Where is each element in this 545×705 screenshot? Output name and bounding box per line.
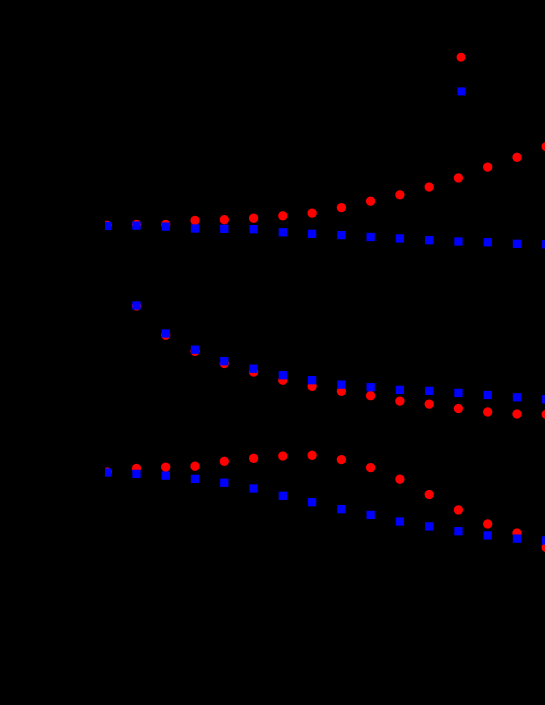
series band1-red (rising, top band): red circle markers: [103, 142, 545, 230]
series band1-blue (flat, top band): blue square markers: [103, 221, 545, 248]
series band2-blue (declining, middle band): blue square markers: [132, 301, 545, 403]
series band3-red (peak then falling, bottom band): red circle markers: [103, 451, 545, 552]
axis clip: black mask left of plot area x<105: [0, 0, 105, 705]
series band2-red (declining, middle band): red circle markers: [132, 301, 545, 419]
legend marker: blue square: [457, 87, 465, 95]
series band3-blue (declining, bottom band): blue square markers: [103, 468, 545, 544]
legend marker: red circle: [457, 53, 466, 62]
